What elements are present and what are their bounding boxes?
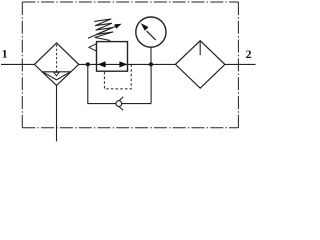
svg-text:2: 2 — [246, 47, 252, 61]
svg-text:1: 1 — [2, 47, 8, 61]
